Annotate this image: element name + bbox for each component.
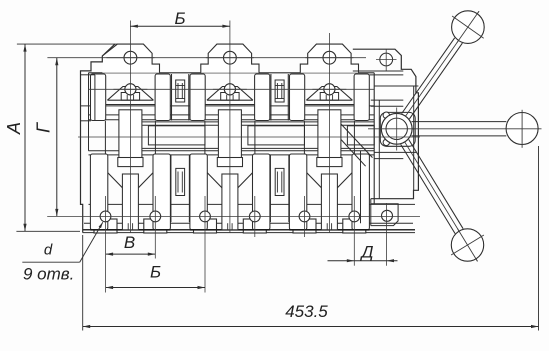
svg-text:Б: Б [150, 263, 161, 282]
support rib diagonal 1 [341, 124, 373, 158]
flange top edge [89, 203, 416, 205]
lower slot insert [275, 168, 284, 195]
unit 3 upper left post [290, 74, 305, 121]
453.5 extension right [538, 146, 540, 331]
unit 2 vertical centerline [229, 21, 231, 234]
left end inner vertical 1 [88, 73, 90, 151]
lug hole centerline extension [386, 203, 388, 266]
lower slot wall left [170, 155, 172, 222]
bottom lug hole [382, 210, 393, 221]
hole x=354.3 vertical centerline/extension [353, 196, 355, 266]
lower slot wall left [269, 155, 271, 222]
hole foot box [293, 219, 316, 233]
handle arm down-right ball [451, 229, 483, 261]
rail joint tick [254, 121, 256, 155]
unit 3 lower right post [352, 154, 369, 230]
web line 2 [371, 99, 404, 101]
rail line y=148.4 [142, 147, 374, 149]
dimension A left [24, 44, 26, 231]
upper posts bottom line [89, 119, 375, 121]
unit 3 second hole h-centerline [312, 88, 346, 90]
hub ear bottom [383, 139, 389, 145]
unit 3 column cap front [317, 158, 342, 167]
handle arm right ball [506, 113, 538, 145]
lower slot insert [176, 168, 185, 195]
link bar [248, 126, 305, 145]
right flange underside line 2 [369, 74, 403, 76]
hub h-centerline over bore [380, 128, 416, 130]
upper slot wall right [287, 74, 289, 121]
unit 2 strap tick left [227, 223, 229, 230]
hub inner circle [386, 118, 407, 139]
unit 1 lower right post [153, 154, 170, 230]
rail line y=121.9 [142, 121, 374, 123]
second holes axis centerline [89, 88, 375, 90]
unit 3 middle column [318, 110, 341, 162]
lower band top line [89, 150, 375, 152]
flange hole x=155 [150, 211, 161, 222]
tower 2 outline [201, 44, 259, 73]
hole foot box [343, 219, 366, 233]
hole x=155.3 vertical centerline/extension [154, 196, 156, 259]
unit 1 middle column [119, 110, 142, 162]
unit 2 lower column [222, 174, 238, 230]
web line 4 [374, 151, 416, 153]
left end inner vertical 2 [94, 75, 96, 121]
right flange top hole [380, 53, 393, 66]
unit 3 strap tick left [326, 223, 328, 230]
unit 1 V-bracket [107, 87, 153, 101]
unit 1 lower column [122, 174, 138, 230]
upper slot wall left [171, 74, 173, 121]
unit 3 notch slot right [332, 95, 334, 100]
label shelf line [22, 261, 79, 263]
unit 1 notch slot right [133, 95, 135, 100]
hole x=105.6 vertical centerline/extension [105, 196, 107, 293]
unit 1 strap tick right [132, 223, 134, 230]
svg-text:453.5: 453.5 [285, 302, 328, 321]
tower 1 top hole [124, 51, 137, 64]
tower 3 hole h-centerline [305, 57, 353, 59]
upper slot wall right [188, 74, 190, 121]
rail line y=125.2 [142, 124, 374, 126]
lower slot wall right [188, 155, 190, 222]
unit 3 funnel chamfer left [307, 173, 322, 188]
unit 1 deck line [106, 104, 155, 106]
svg-text:А: А [4, 122, 24, 135]
rail joint tick [154, 121, 156, 155]
right area vertical [360, 151, 362, 223]
unit 1 second hole [125, 84, 136, 95]
unit 1 second hole h-centerline [113, 88, 147, 90]
lug left edge [370, 199, 372, 226]
unit 1 funnel chamfer left [108, 173, 123, 188]
top holes axis centerline [47, 57, 366, 59]
flange hole x=255 [249, 211, 260, 222]
tower 1 outline with end-cap staircase [102, 44, 159, 73]
hole foot box [194, 219, 217, 233]
unit 1 notch slot left [126, 95, 128, 100]
web line 3 [371, 105, 404, 107]
handle arm down-right centerline [397, 129, 478, 262]
web line 5 [374, 158, 403, 160]
dimension B top [130, 25, 230, 27]
link bar [148, 126, 205, 145]
tower 2 top hole [224, 51, 237, 64]
unit 3 lower left post [289, 154, 306, 230]
unit 3 lower post bottoms thick [289, 229, 369, 231]
unit 2 V-bracket [207, 87, 253, 101]
unit 1 funnel chamfer right [138, 173, 153, 188]
unit 2 second hole h-centerline [213, 88, 247, 90]
tower 2 hole h-centerline [206, 57, 254, 59]
dimension V bottom [106, 253, 156, 255]
unit 2 upper left post [190, 74, 205, 121]
unit 3 upper right post [354, 74, 369, 121]
left end cap outline [81, 44, 115, 233]
leader d / 9 otv [80, 222, 103, 262]
unit 2 funnel chamfer right [238, 173, 253, 188]
unit 2 lower right post [253, 154, 270, 230]
dimension D bottom right [328, 260, 398, 262]
hole x=254.8 vertical centerline/extension [254, 196, 256, 237]
svg-text:d: d [44, 242, 53, 259]
handle arm down-right edge lines [409, 140, 463, 229]
saddle top edge across body [89, 72, 375, 74]
unit 3 funnel chamfer right [337, 173, 352, 188]
unit 2 deck line [205, 104, 254, 106]
unit 3 notch slot left [325, 95, 327, 100]
A extension top [17, 43, 119, 45]
unit 1 column cap front [118, 158, 143, 167]
bottom lug outline [371, 204, 398, 226]
unit 3 V-bracket notch [320, 93, 338, 101]
flange hole x=304 [299, 211, 310, 222]
unit 1 upper left post [91, 74, 106, 121]
flange hole x=106 [100, 211, 111, 222]
svg-text:Г: Г [34, 122, 54, 133]
rail joint tick [104, 121, 106, 155]
unit 2 second hole [224, 84, 235, 95]
unit 2 notch slot right [232, 95, 234, 100]
unit 1 lower post bottoms thick [90, 229, 170, 231]
unit 2 V-bracket notch [221, 93, 239, 101]
unit 2 funnel chamfer left [207, 173, 222, 188]
handle arm up-right edge lines [402, 38, 455, 114]
hub outer circle [381, 113, 412, 144]
dimension B bottom [106, 287, 205, 289]
svg-text:Д: Д [360, 243, 374, 262]
unit 3 deck line [305, 104, 354, 106]
tower 1 hole h-centerline [106, 57, 154, 59]
upper band line 1 [81, 105, 375, 107]
unit 1 V-bracket bottom [107, 99, 153, 101]
body bottom edge [83, 229, 415, 231]
unit 2 strap tick right [231, 223, 233, 230]
unit 1 vertical centerline [129, 21, 131, 234]
left end step line 2 [81, 120, 92, 122]
A extension bottom [16, 230, 80, 232]
upper slot insert [176, 80, 185, 102]
hub v-centerline [396, 108, 398, 151]
bracket right inner vertical [413, 86, 415, 190]
hole x=205.0 vertical centerline/extension [204, 196, 206, 293]
bracket left edge [373, 73, 375, 204]
rail joint tick [303, 121, 305, 155]
unit 3 V-bracket [306, 87, 352, 101]
unit 3 vertical centerline [328, 33, 330, 233]
hole foot box [243, 219, 266, 233]
rail joint tick [204, 121, 206, 155]
hole foot box [94, 219, 117, 233]
flange hole x=354 [349, 211, 360, 222]
hub ear top [383, 112, 389, 118]
hub axis centerline [368, 128, 542, 130]
unit 2 lower left post [190, 154, 207, 230]
unit 1 lower left post [90, 154, 107, 230]
unit 3 lower column [321, 174, 337, 230]
dimension G left [56, 58, 58, 217]
handle arm up-right ball [452, 11, 485, 44]
right bracket outline [353, 49, 419, 199]
tower 3 outline [300, 44, 358, 73]
hole foot box [144, 219, 167, 233]
support rib diagonal 2 [341, 140, 366, 167]
base plate bottom edge [83, 232, 415, 234]
unit 2 upper right post [255, 74, 270, 121]
unit 3 V-bracket bottom [306, 99, 352, 101]
left end step line [81, 74, 95, 76]
bracket inner vertical [378, 100, 380, 199]
unit 1 strap tick left [127, 223, 129, 230]
453.5 extension left [82, 235, 84, 331]
tower 3 top hole [323, 51, 336, 64]
svg-text:В: В [124, 233, 135, 252]
rail joint tick [353, 121, 355, 155]
unit 3 strap tick right [331, 223, 333, 230]
upper band line 2 [89, 114, 375, 116]
bracket web line [374, 85, 418, 87]
flange strap edge [84, 222, 413, 224]
upper slot insert [275, 80, 284, 102]
flange hole x=205 [200, 211, 211, 222]
unit 1 V-bracket notch [121, 93, 139, 101]
svg-text:Б: Б [174, 9, 185, 28]
unit 2 middle column [218, 110, 241, 162]
unit 2 lower post bottoms thick [190, 229, 270, 231]
handle arm right edge lines [412, 121, 507, 123]
unit 2 V-bracket bottom [207, 99, 253, 101]
hub boss plate [380, 112, 415, 146]
svg-text:9 отв.: 9 отв. [23, 265, 74, 284]
upper slot wall left [270, 74, 272, 121]
hole x=304.5 vertical centerline/extension [304, 196, 306, 237]
right flange underside line [353, 70, 404, 72]
link bar [347, 126, 374, 145]
unit 3 second hole [324, 84, 335, 95]
main horizontal centerline [78, 136, 420, 138]
lower posts top line [89, 154, 375, 156]
unit 2 column cap front [217, 158, 242, 167]
unit 2 notch slot left [226, 95, 228, 100]
handle arm up-right centerline [397, 11, 479, 129]
dimension 453.5 overall [83, 326, 539, 328]
bottom holes axis centerline [47, 215, 420, 217]
lower slot wall right [288, 155, 290, 222]
unit 1 upper right post [155, 74, 170, 121]
